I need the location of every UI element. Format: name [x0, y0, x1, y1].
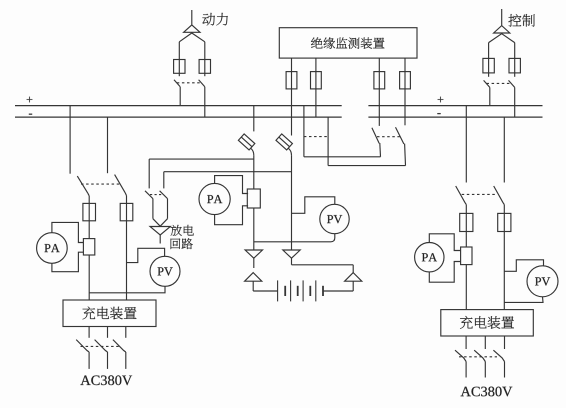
- wire: PV3 bottom tap: [504, 297, 543, 303]
- wire: [488, 73, 490, 77]
- label: right bus +: [438, 97, 444, 103]
- link: charger1 AC switch tie: [81, 345, 122, 347]
- label: left bus +: [27, 97, 33, 103]
- fuse FU power L: [174, 60, 185, 74]
- switch QS charger1 R blade: [115, 175, 126, 193]
- wire: [148, 159, 150, 188]
- wire into charger2 box: [465, 265, 467, 310]
- wire: discharge tap 2: [164, 171, 292, 173]
- wire: discharge stub: [159, 235, 161, 244]
- label PA: [422, 253, 437, 261]
- wire to battery + plate: [253, 290, 277, 292]
- connector: battery link B upper (triangle): [283, 250, 300, 258]
- wire: [352, 281, 354, 291]
- wire to + bus: [179, 87, 181, 106]
- device: charger1 box 充电装置: [63, 300, 156, 327]
- wire: [107, 352, 109, 369]
- switch: charger2 AC switch 2: [474, 350, 485, 361]
- fuse FU monitor 3: [374, 72, 385, 89]
- link: charger2 switch tie: [462, 193, 498, 195]
- wire: PA3 top loop: [429, 234, 460, 251]
- wire to - bus: [514, 87, 516, 117]
- wire: [253, 208, 255, 250]
- switch QS control L: [484, 80, 490, 87]
- label: 绝缘监测装置: [311, 37, 384, 48]
- connector: control input plug (triangle): [494, 26, 510, 33]
- wire: discharge funnel L: [153, 219, 160, 227]
- wire: PA2 bottom loop: [215, 206, 249, 225]
- wire: [204, 42, 206, 60]
- meter PV charger1: [150, 256, 180, 286]
- wire to - bus: [204, 87, 206, 117]
- wire: [204, 73, 206, 76]
- device: charger2 box 充电装置: [441, 310, 534, 336]
- switch QS charger2 R blade: [494, 186, 505, 205]
- wire: power input V-split: [179, 33, 205, 42]
- wire: fuse A lower contact arc: [251, 148, 254, 155]
- meter PV charger2: [527, 266, 558, 297]
- switch QS power R: [199, 80, 205, 87]
- wire: monitor lead 4 down to tie switch: [404, 89, 406, 125]
- link: left tie mechanical tie: [304, 136, 328, 138]
- label: 充电装置: [460, 316, 514, 329]
- wire: [291, 258, 293, 264]
- wire: charger1 AC phase 2: [107, 327, 109, 338]
- wire: charger2 + drop: [465, 106, 467, 183]
- label PA: [207, 195, 222, 203]
- wire: charger2 AC phase 2: [484, 336, 486, 349]
- link: control switch mechanical tie: [487, 82, 512, 84]
- wire: monitor lead 1: [291, 58, 293, 72]
- switch QS charger2 L blade: [456, 186, 467, 205]
- shunt R battery: [247, 189, 260, 208]
- wire into charger1 box: [126, 221, 128, 300]
- switch: discharge R blade: [160, 191, 168, 199]
- wire: [88, 193, 89, 196]
- wire: left control bus, positive: [15, 105, 342, 107]
- wire: [504, 362, 506, 378]
- wire: [88, 352, 90, 369]
- wire: charger1 + drop: [69, 106, 71, 174]
- wire: [514, 73, 516, 77]
- wire: [465, 362, 467, 378]
- wire: [352, 265, 354, 273]
- wire: [152, 199, 154, 219]
- label: left bus -: [29, 113, 32, 116]
- link: charger2 AC switch tie: [459, 356, 497, 358]
- wire: monitor lead 2 to - bus: [315, 89, 317, 117]
- wire: PV1 top tap: [127, 248, 165, 262]
- wire: control input V-split: [489, 34, 515, 43]
- wire: right control bus, positive: [368, 105, 542, 107]
- switch: charger1 AC switch 3: [113, 340, 126, 352]
- wire: PA2 top loop: [215, 176, 249, 194]
- wire: charger2 - drop: [503, 117, 505, 182]
- fuse-switch: battery fuse A (tilted): [238, 134, 254, 150]
- meter PA charger1: [37, 233, 68, 264]
- switch: tie pole L2 (closed): [327, 117, 329, 166]
- label: 充电装置: [83, 307, 137, 320]
- wire: monitor lead 4: [404, 58, 406, 72]
- wire: [126, 196, 128, 204]
- wire: [379, 143, 382, 157]
- switch: tie pole R1 blade: [372, 128, 379, 144]
- switch: tie pole R2 blade: [396, 127, 404, 144]
- wire: monitor lead 3 down to tie switch: [378, 89, 380, 126]
- switch: charger2 AC switch 1: [455, 350, 466, 361]
- wire: battery lead B: [291, 155, 293, 250]
- wire: charger1 AC phase 3: [125, 327, 127, 338]
- connector: discharge plug (triangle): [150, 227, 170, 236]
- wire: charger1 AC phase 1: [88, 327, 90, 338]
- wire: [125, 193, 126, 196]
- fuse FU monitor 1: [286, 72, 297, 89]
- battery GB: storage battery cells: [278, 280, 323, 301]
- wire: [488, 43, 490, 59]
- wire: [88, 196, 90, 204]
- switch: charger1 AC switch 1: [76, 340, 89, 352]
- wire: [465, 232, 467, 248]
- wire: PA1 bottom loop: [52, 252, 84, 272]
- wire: [178, 42, 180, 60]
- label: AC380V left: [80, 375, 132, 385]
- wire: battery lead A from + bus: [253, 106, 255, 132]
- connector: power input plug (triangle): [184, 25, 200, 32]
- switch: charger1 AC switch 2: [95, 340, 108, 352]
- wire: control input lead: [501, 9, 503, 25]
- switch: discharge L blade: [145, 191, 153, 199]
- wire into charger2 box: [503, 232, 505, 310]
- shunt R charger1: [83, 239, 94, 255]
- wire: power input lead: [191, 10, 193, 25]
- wire to battery - link: [292, 264, 354, 266]
- wire: right control bus, negative: [368, 116, 542, 118]
- fuse FU power R: [199, 60, 210, 74]
- wire: PV2 bottom to lead A: [254, 234, 335, 242]
- wire: charger2 AC phase 1: [465, 336, 467, 349]
- wire: [253, 155, 255, 189]
- label PV: [158, 267, 173, 275]
- wire: [514, 43, 516, 59]
- wire to + bus: [489, 87, 491, 105]
- label PV: [535, 277, 550, 285]
- wire: discharge funnel R: [160, 219, 167, 227]
- meter PA battery: [199, 183, 230, 214]
- label: 动力 (power): [202, 13, 228, 26]
- wire: [252, 281, 254, 291]
- label: AC380V right: [461, 387, 513, 397]
- shunt R charger2: [461, 247, 472, 265]
- wire: tie bus 2: [328, 165, 405, 167]
- link: power switch mechanical tie: [177, 82, 201, 84]
- connector: battery link A upper (triangle): [245, 250, 262, 258]
- wire: PV2 top tap: [292, 197, 335, 214]
- fuse FU control R: [509, 58, 520, 73]
- label: 控制 (control): [508, 14, 534, 27]
- label: 放电: [171, 225, 194, 236]
- wire: [125, 352, 127, 369]
- connector: battery link A lower (triangle): [245, 273, 262, 282]
- wire: fuse B lower contact arc: [288, 148, 291, 155]
- wire: [88, 221, 90, 239]
- switch: charger2 AC switch 3: [493, 350, 504, 361]
- wire: [465, 205, 467, 214]
- fuse FU control L: [483, 58, 494, 73]
- meter PV battery: [320, 204, 349, 233]
- wire: monitor lead 2: [315, 58, 317, 72]
- wire: left control bus, negative: [15, 116, 342, 118]
- link: right tie mechanical tie: [377, 136, 400, 138]
- wire: [484, 362, 486, 378]
- label: 回路: [171, 238, 193, 249]
- wire: monitor lead 1 down to battery fuse: [291, 89, 293, 136]
- wire: charger1 - drop: [107, 117, 109, 173]
- wire: PV3 top tap: [504, 260, 543, 272]
- wire: [167, 199, 169, 219]
- wire: [178, 73, 180, 76]
- wire: tie bus 1: [304, 156, 381, 158]
- label PA: [45, 244, 60, 252]
- wire into charger1 box: [88, 255, 90, 300]
- fuse FU charger1 R: [120, 203, 133, 220]
- wire: [253, 258, 255, 268]
- wire to battery - plate: [323, 290, 353, 292]
- fuse FU charger1 L: [83, 203, 96, 220]
- label PV: [327, 215, 342, 223]
- wire: discharge tap 1: [149, 158, 254, 160]
- switch QS power L: [174, 80, 180, 87]
- wire: [163, 172, 165, 189]
- fuse FU monitor 4: [400, 72, 411, 89]
- fuse-switch: battery fuse B (tilted): [276, 134, 292, 150]
- wire: PA1 top loop: [52, 222, 84, 242]
- wire: PV1 bottom tap: [89, 286, 165, 293]
- wire: [503, 205, 505, 214]
- connector: battery link B lower (triangle): [345, 273, 362, 282]
- fuse FU monitor 2: [311, 72, 322, 89]
- wire: [404, 144, 407, 166]
- switch: tie pole L1 (closed): [303, 106, 305, 157]
- wire: monitor lead 3: [378, 58, 380, 72]
- switch QS control R: [509, 80, 515, 87]
- wire: charger2 AC phase 3: [504, 336, 506, 349]
- switch QS charger1 L blade: [77, 176, 88, 193]
- device U1: insulation monitor box: [279, 28, 417, 58]
- fuse FU charger2 R: [498, 213, 511, 231]
- link: discharge switch tie: [150, 194, 162, 196]
- wire: PA3 bottom loop: [429, 262, 460, 283]
- link: charger1 switch tie: [81, 183, 120, 185]
- label: right bus -: [437, 112, 440, 115]
- meter PA charger2: [415, 243, 444, 272]
- fuse FU charger2 L: [460, 213, 473, 231]
